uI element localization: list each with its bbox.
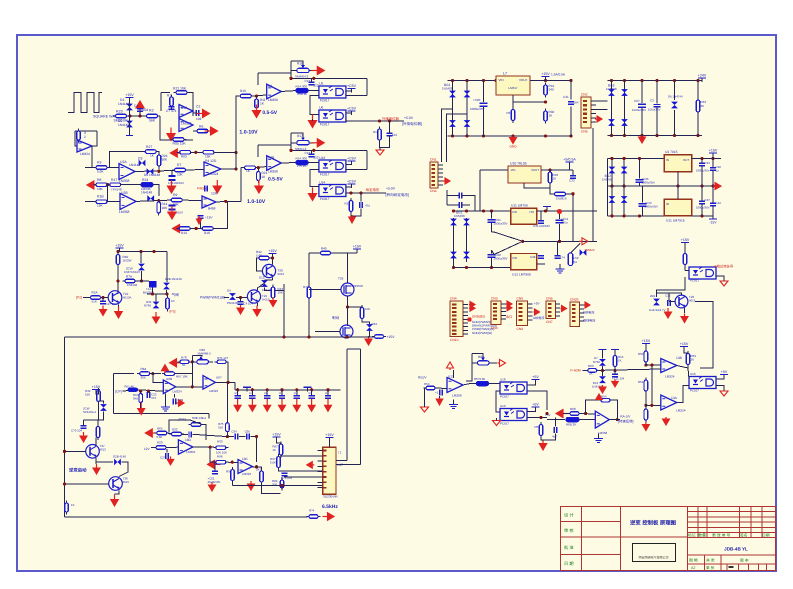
svg-text:LM324: LM324	[209, 389, 219, 393]
svg-text:C1Y: C1Y	[305, 151, 311, 155]
wire 13D out down	[210, 447, 214, 462]
stub R43 top	[272, 285, 274, 287]
junction	[307, 335, 310, 338]
capacitor C36	[538, 221, 544, 223]
hollow arrow right pot speed	[498, 360, 506, 367]
power arrow below 13A	[663, 417, 670, 425]
svg-text:逆变 控制板 原理图: 逆变 控制板 原理图	[630, 520, 677, 527]
svg-text:5.6K: 5.6K	[97, 170, 104, 174]
svg-text:D4 1N4148: D4 1N4148	[144, 173, 160, 177]
VCC bar opto spd2	[532, 403, 540, 412]
wire R41 to mid rail	[566, 194, 573, 241]
wire R38 to T37 collector	[95, 438, 97, 445]
stub R49 top	[684, 247, 686, 253]
junction	[521, 240, 524, 243]
wire T37 to D2B	[96, 461, 113, 463]
svg-text:1N5408: 1N5408	[454, 214, 465, 218]
junction cap row	[310, 388, 313, 391]
stub collector	[117, 290, 119, 292]
small power arrow at loop cap	[197, 216, 202, 224]
svg-text:IRF9540: IRF9540	[352, 284, 363, 288]
svg-text:R91: R91	[226, 470, 232, 474]
VCC bar brake	[353, 245, 362, 254]
svg-text:LM358: LM358	[119, 179, 129, 183]
svg-text:LM324: LM324	[173, 390, 183, 394]
svg-text:OUT: OUT	[683, 158, 689, 162]
stub C20 start top	[83, 420, 85, 426]
wire osc top c	[175, 373, 192, 375]
svg-text:N748: N748	[593, 360, 600, 364]
diode BG1-3	[449, 120, 456, 127]
junction	[640, 79, 643, 82]
capacitor C61 decoupling	[249, 390, 256, 399]
wire bridge4 left leg	[611, 158, 613, 216]
power arrow valve emitter	[115, 307, 123, 319]
junction	[673, 79, 676, 82]
svg-text:10K: 10K	[162, 206, 169, 210]
wire pm15 mid rail right	[678, 185, 721, 187]
wire R1B to U2B	[108, 201, 120, 203]
power arrow left osc	[170, 359, 183, 367]
wire pot speed loop	[471, 354, 473, 364]
svg-text:R5?3.3K: R5?3.3K	[474, 377, 485, 381]
junction	[676, 185, 679, 188]
ground triangle upper	[376, 150, 384, 155]
electrolytic capacitor C23	[638, 81, 646, 136]
svg-text:2D1: 2D1	[650, 294, 656, 298]
potentiometer R17 lower	[291, 137, 314, 145]
MOSFET T26 IRF9540	[341, 283, 354, 296]
junction	[616, 418, 619, 421]
svg-text:5RB 14B-2: 5RB 14B-2	[192, 416, 207, 420]
resistor R10	[238, 94, 254, 98]
resistor R60	[139, 391, 143, 405]
stub T21 emitter	[257, 303, 259, 306]
svg-text:1?4: 1?4	[560, 256, 565, 260]
resistor R39	[97, 388, 101, 404]
svg-text:104: 104	[325, 392, 330, 395]
junction	[139, 390, 142, 393]
resistor R17	[107, 183, 123, 187]
svg-text:R17: R17	[297, 134, 303, 138]
resistor R14	[157, 200, 161, 216]
wire R50 to 13B	[646, 363, 661, 365]
junction	[345, 335, 348, 338]
wire T23 collector to 13B loop	[695, 302, 713, 369]
wire R2A to base	[102, 297, 109, 299]
resistor R77	[189, 423, 204, 427]
junction	[312, 149, 315, 152]
svg-text:LM358: LM358	[598, 431, 608, 435]
svg-text:51K: 51K	[218, 426, 223, 430]
svg-text:VOUT: VOUT	[519, 78, 528, 82]
svg-text:50K: 50K	[162, 158, 169, 162]
resistor R67	[162, 372, 177, 376]
stub r20	[151, 447, 155, 449]
wire loop2 left	[257, 145, 259, 157]
wire loop speed2	[586, 400, 618, 419]
wire rail upper stage	[291, 77, 367, 79]
connector CN5	[517, 301, 528, 326]
power arrow below zener row A	[167, 180, 175, 193]
wire speed2 out	[609, 419, 620, 421]
svg-text:R56: R56	[535, 425, 541, 429]
junction	[610, 157, 613, 160]
svg-text:R78: R78	[181, 356, 187, 360]
svg-text:JDB-4B YL: JDB-4B YL	[724, 547, 748, 552]
junction	[545, 412, 548, 415]
wire U14 out	[692, 215, 713, 217]
wire IC loop right vertical	[360, 349, 362, 465]
junction cap row	[251, 388, 254, 391]
wire cap stem c12	[389, 121, 391, 133]
wire pm15 bottom rail	[608, 215, 665, 217]
transistor T21	[247, 290, 260, 303]
wire bottom bus to IC	[233, 485, 323, 487]
op-amp 13C	[238, 460, 253, 474]
red ball marker	[557, 209, 562, 214]
svg-text:1000u/35V: 1000u/35V	[632, 108, 646, 112]
zener C08 with cap	[169, 176, 176, 180]
svg-text:104: 104	[392, 133, 397, 137]
wire opto1b right to rail	[346, 169, 367, 171]
CN1 pin stubs	[438, 164, 443, 166]
power arrow right above 12A	[213, 180, 221, 193]
svg-text:R9: R9	[173, 193, 177, 197]
diode BG3-1	[608, 89, 615, 96]
junction	[610, 79, 613, 82]
electrolytic capacitor C20	[480, 81, 488, 137]
junction	[280, 484, 283, 487]
red pin arrow CN5	[534, 309, 540, 315]
svg-text:PWM(PWM1)(B): PWM(PWM1)(B)	[200, 296, 225, 300]
svg-text:+5V: +5V	[529, 210, 534, 214]
wire R39 to zener	[99, 403, 104, 421]
wire U2A out	[135, 171, 174, 172]
wire pot1 loop	[290, 61, 292, 78]
wire rail right vertical lower	[366, 150, 368, 169]
svg-text:0.5-5V: 0.5-5V	[262, 110, 277, 116]
power arrow below C14	[436, 397, 443, 405]
power arrow below C51	[209, 482, 216, 491]
capacitor C63 decoupling	[279, 390, 286, 399]
junction	[101, 296, 104, 299]
svg-text:D2B 1N4148: D2B 1N4148	[165, 277, 182, 281]
svg-text:13A: 13A	[671, 396, 678, 400]
diode BG4-3	[609, 196, 616, 203]
svg-text:D6 1N4744: D6 1N4744	[668, 95, 683, 99]
diode D3	[139, 160, 146, 167]
diode BG4-1	[609, 167, 616, 174]
svg-text:LM324: LM324	[186, 450, 196, 454]
diode BG4-4	[621, 196, 628, 203]
svg-text:R71 147: R71 147	[217, 356, 228, 360]
svg-text:R18: R18	[345, 202, 351, 206]
junction	[140, 279, 143, 282]
svg-text:C33: C33	[569, 179, 575, 183]
svg-text:U17: U17	[448, 375, 454, 379]
wire op1 to op2 osc	[176, 386, 203, 388]
svg-text:D33: D33	[372, 322, 378, 326]
stub R53 vcc	[684, 351, 688, 354]
wire spd2 out	[527, 417, 547, 419]
junction	[255, 465, 258, 468]
svg-text:1N4148: 1N4148	[118, 102, 129, 106]
capacitor C24	[166, 453, 168, 459]
svg-text:[P3]: [P3]	[170, 310, 176, 314]
svg-text:+15V: +15V	[680, 342, 689, 346]
stub R50	[645, 348, 647, 351]
wire op out to R55	[463, 384, 476, 386]
stub	[166, 290, 168, 294]
diode D1	[126, 104, 133, 111]
svg-text:PC817: PC817	[690, 279, 700, 283]
svg-text:C76 103: C76 103	[281, 476, 292, 480]
svg-text:56K: 56K	[149, 119, 156, 123]
CN2 pin pads	[583, 100, 587, 102]
wire U1 loop left	[160, 93, 162, 112]
junction	[157, 170, 160, 173]
stub C11	[614, 370, 616, 374]
diode BG1-1	[449, 91, 456, 98]
svg-text:+5V: +5V	[532, 375, 539, 379]
wire opto right vcc	[716, 378, 724, 381]
svg-text:IN: IN	[666, 202, 669, 206]
optocoupler U15 PC817	[689, 267, 716, 279]
op-amp U6B osc	[163, 380, 175, 394]
stub C14 gnd	[439, 396, 441, 398]
wire R97 to IC bottom	[262, 483, 281, 494]
red pin arrow CN1	[443, 178, 450, 184]
power arrow cap row 0	[234, 399, 241, 412]
wire L52 diag	[571, 244, 581, 254]
wire osc out to cap rail	[234, 382, 236, 389]
junction	[610, 185, 613, 188]
wire supply1 top rail	[448, 80, 572, 82]
wire diode string	[129, 101, 131, 133]
capacitor C11	[612, 374, 618, 376]
junction	[151, 372, 154, 375]
stub C34	[701, 158, 703, 163]
svg-text:R5A 300: R5A 300	[296, 157, 308, 161]
wire opto2b vcc	[346, 186, 352, 189]
stub D7 top	[602, 354, 604, 359]
svg-text:CN6: CN6	[546, 297, 553, 301]
wire R54 to op	[436, 387, 447, 390]
svg-text:R12: R12	[373, 130, 379, 134]
wire U1 loop left-bottom	[160, 116, 193, 140]
svg-text:R51: R51	[638, 380, 644, 384]
wire to opto1b	[308, 162, 319, 164]
svg-text:U3 7815: U3 7815	[665, 150, 678, 154]
svg-text:C16: C16	[665, 294, 671, 298]
capacitor C23	[147, 392, 149, 398]
svg-text:473: 473	[151, 396, 156, 400]
svg-text:RA-2/V: RA-2/V	[620, 415, 631, 419]
wire CB2 out	[462, 204, 470, 206]
connector CN1	[430, 162, 438, 188]
potentiometer RP2	[472, 358, 497, 366]
svg-text:U4B: U4B	[268, 156, 274, 160]
resistor R19	[177, 227, 193, 231]
stub C37	[701, 186, 703, 201]
junction	[289, 77, 292, 80]
junction	[544, 134, 547, 137]
electrolytic capacitor C21	[488, 211, 496, 232]
capacitor C14	[440, 390, 442, 396]
svg-text:+15V: +15V	[268, 249, 277, 253]
capacitor C22	[189, 431, 191, 437]
CN1 pin pads	[432, 164, 436, 166]
wire C31 stem top	[570, 81, 572, 100]
stub zener top	[99, 401, 104, 404]
op-amp U17B	[595, 411, 609, 428]
svg-text:+15V: +15V	[325, 433, 334, 437]
resistor R65	[154, 431, 169, 435]
VCC bar +5V	[563, 158, 576, 167]
square wave source	[68, 93, 102, 113]
stub C3B	[174, 394, 176, 398]
junction	[584, 412, 587, 415]
wire U10 in riser	[479, 170, 481, 211]
svg-text:R7A: R7A	[126, 275, 133, 279]
power arrow below C4	[237, 305, 244, 314]
svg-text:CN4: CN4	[430, 189, 437, 193]
stub C27	[102, 298, 104, 302]
power arrow below D31	[153, 312, 160, 323]
wire to CB2	[447, 204, 459, 206]
red pin arrow CN7	[584, 302, 590, 308]
svg-text:1000u/35V: 1000u/35V	[696, 169, 710, 173]
wire mid rail	[523, 240, 597, 242]
resistor R53	[686, 351, 690, 367]
svg-text:1u: 1u	[716, 169, 720, 173]
svg-text:P-A2M: P-A2M	[570, 369, 581, 373]
svg-text:U6B: U6B	[166, 377, 172, 381]
wire opto2b output	[346, 192, 386, 194]
wire supply1 bottom rail	[448, 135, 572, 137]
resistor R7	[172, 168, 188, 172]
power arrow below C20 start	[80, 432, 87, 442]
wire op2 out	[281, 162, 297, 165]
VCC bar valve	[115, 244, 124, 253]
svg-text:R6: R6	[199, 125, 203, 129]
capacitor C12	[387, 133, 393, 135]
wire to R24	[124, 184, 141, 186]
wire U10 out	[541, 169, 573, 171]
svg-text:+15V: +15V	[92, 385, 101, 389]
op-amp U1B	[179, 119, 193, 132]
svg-text:数量: 数量	[698, 532, 706, 537]
svg-text:47u: 47u	[365, 204, 370, 208]
svg-text:9-013: 9-013	[262, 298, 270, 302]
stub R89	[281, 486, 283, 489]
diode D6 right supply	[671, 102, 678, 109]
resistor R20	[154, 446, 169, 450]
svg-text:R68: R68	[570, 407, 576, 411]
stub mid to regs	[664, 185, 678, 187]
power port output arrow VREF	[197, 109, 210, 117]
wire R33 bottom leg	[697, 113, 699, 136]
svg-text:CN2: CN2	[581, 93, 588, 97]
capacitor C39	[555, 256, 561, 258]
junction	[700, 185, 703, 188]
power arrow right pot2	[311, 139, 324, 147]
wire R90 to IC	[279, 468, 323, 471]
junction	[116, 279, 119, 282]
wire opto spd1 to spd2	[496, 391, 500, 412]
power arrow cap row 6	[325, 399, 332, 412]
junction	[359, 191, 362, 194]
junction	[465, 79, 468, 82]
wire to op1 input	[236, 95, 239, 97]
inductor L52	[568, 253, 573, 266]
wire R51 to R52	[645, 392, 647, 420]
resistor R46	[360, 305, 364, 321]
resistor R3	[94, 166, 110, 170]
svg-text:C2: C2	[196, 105, 200, 109]
wire CN1 gap leg	[446, 190, 448, 205]
svg-text:C1: C1	[134, 104, 138, 108]
svg-text:1000u/35V: 1000u/35V	[645, 205, 659, 209]
capacitor C7	[169, 107, 175, 109]
resistor R4	[77, 129, 81, 143]
power arrow mid rail out	[713, 183, 721, 190]
CN4 pin pads	[452, 304, 457, 306]
junction	[209, 446, 212, 449]
wire C36 stem	[540, 211, 542, 221]
svg-text:10K: 10K	[365, 307, 370, 311]
stub D41 top	[602, 370, 604, 375]
junction	[271, 256, 274, 259]
svg-text:U14: U14	[319, 181, 325, 185]
svg-text:制动: 制动	[332, 316, 340, 320]
resistor R11	[255, 97, 259, 111]
power arrow below zener row B	[168, 206, 176, 219]
diode BG3-3	[608, 119, 615, 126]
wire 12A out vertical riser	[240, 168, 242, 202]
wire 13C out	[253, 466, 257, 468]
svg-text:更 改 单 号: 更 改 单 号	[712, 532, 731, 537]
op-amp U2B	[120, 193, 136, 209]
zener D30	[138, 264, 145, 271]
svg-text:R17: R17	[111, 178, 117, 182]
wire osc top b	[150, 373, 161, 375]
resistor R7A	[123, 279, 138, 283]
regulator U11 LM7805	[511, 208, 537, 224]
capacitor C20 start	[81, 426, 87, 428]
svg-text:LM358: LM358	[119, 210, 129, 214]
wire bridge1 to CN1 pin1	[442, 109, 453, 162]
wire C31 stem bottom	[570, 107, 572, 137]
wire CN2 to bridge3 b	[596, 108, 608, 110]
resistor R2	[144, 114, 160, 118]
stub C28 b	[712, 171, 714, 187]
power arrow left 12A loop	[173, 224, 186, 232]
stub vcc pm	[712, 153, 714, 158]
resistor R91	[231, 467, 235, 483]
wire to SCR	[136, 280, 149, 282]
svg-text:LM358: LM358	[268, 98, 278, 102]
wire left loop top	[75, 130, 97, 132]
resistor R31	[544, 83, 548, 98]
junction	[139, 250, 142, 253]
svg-text:西安西驰电气有限公司: 西安西驰电气有限公司	[638, 556, 668, 560]
power arrow up osc	[162, 365, 169, 373]
wire pm15 left rail	[607, 158, 609, 216]
wire C76 to IC	[285, 476, 323, 477]
svg-text:D12: D12	[259, 276, 265, 280]
